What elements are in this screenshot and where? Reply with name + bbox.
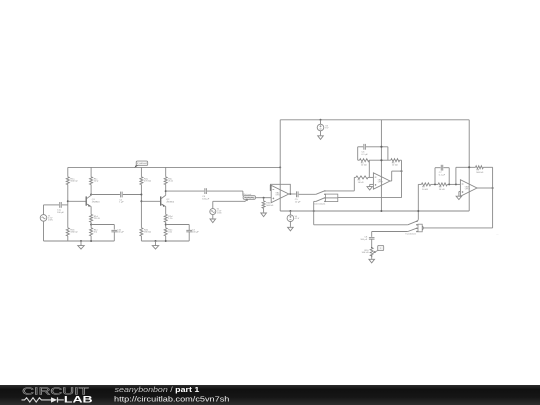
svg-text:http://circuitlab.com/c5vn7sh: http://circuitlab.com/c5vn7sh xyxy=(114,394,229,403)
svg-text:LAB: LAB xyxy=(64,395,93,405)
svg-text:seanybonbon / part 1: seanybonbon / part 1 xyxy=(115,385,200,394)
